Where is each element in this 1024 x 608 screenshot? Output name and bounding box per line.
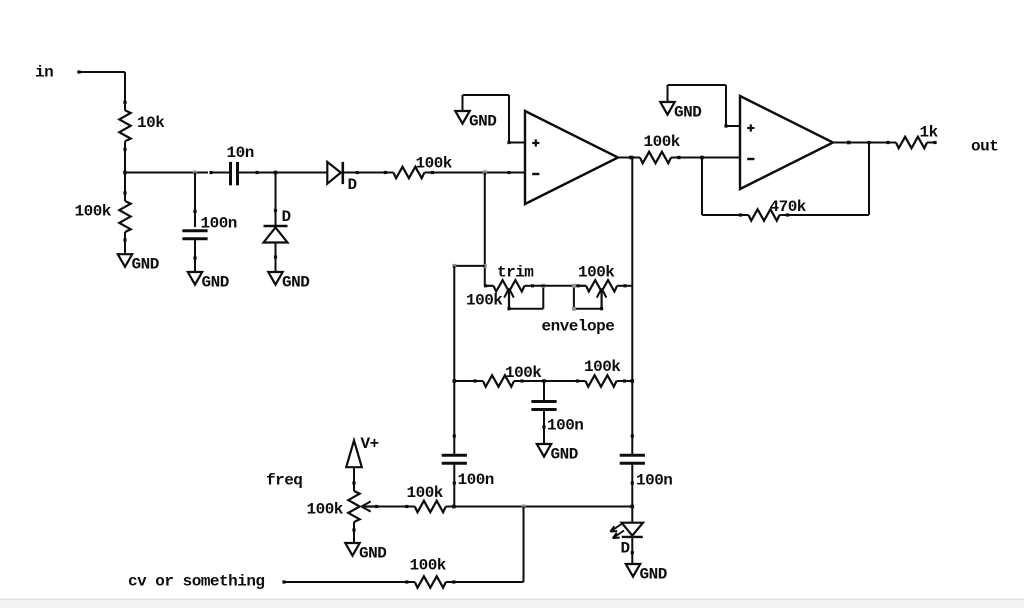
svg-text:100k: 100k xyxy=(407,484,444,502)
svg-text:100n: 100n xyxy=(547,417,583,435)
svg-text:GND: GND xyxy=(551,446,578,464)
svg-text:V+: V+ xyxy=(361,435,379,453)
svg-text:100k: 100k xyxy=(505,364,542,382)
svg-text:100k: 100k xyxy=(410,557,447,575)
svg-text:GND: GND xyxy=(202,274,229,292)
svg-text:100k: 100k xyxy=(75,203,112,221)
svg-text:out: out xyxy=(971,137,998,155)
svg-text:100k: 100k xyxy=(584,358,621,376)
svg-text:100k: 100k xyxy=(578,264,615,282)
svg-text:100n: 100n xyxy=(458,471,494,489)
svg-text:GND: GND xyxy=(469,113,496,131)
svg-text:in: in xyxy=(35,64,53,82)
svg-text:100n: 100n xyxy=(636,472,672,490)
svg-text:100k: 100k xyxy=(644,133,681,151)
svg-text:freq: freq xyxy=(266,472,302,490)
svg-text:1k: 1k xyxy=(920,124,939,142)
svg-text:cv or something: cv or something xyxy=(128,573,265,591)
svg-text:10k: 10k xyxy=(137,114,165,132)
svg-text:100k: 100k xyxy=(466,292,503,310)
svg-text:GND: GND xyxy=(640,566,667,584)
svg-text:100k: 100k xyxy=(307,501,344,519)
svg-text:GND: GND xyxy=(282,274,309,292)
svg-text:envelope: envelope xyxy=(542,318,615,336)
svg-text:100k: 100k xyxy=(416,155,453,173)
svg-text:GND: GND xyxy=(132,256,159,274)
svg-text:D: D xyxy=(282,208,291,226)
svg-text:GND: GND xyxy=(674,104,701,122)
svg-text:10n: 10n xyxy=(227,144,254,162)
svg-text:100n: 100n xyxy=(201,215,237,233)
svg-text:GND: GND xyxy=(359,545,386,563)
svg-text:D: D xyxy=(621,540,630,558)
svg-text:trim: trim xyxy=(497,264,534,282)
svg-text:470k: 470k xyxy=(770,198,807,216)
svg-text:D: D xyxy=(348,176,357,194)
